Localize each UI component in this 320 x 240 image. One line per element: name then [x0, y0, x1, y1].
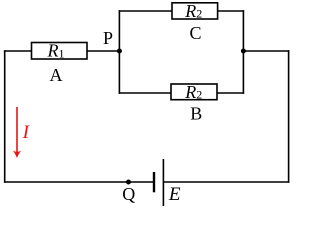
wire: right junction to outer right edge [243, 50, 289, 52]
svg-text:I: I [22, 122, 31, 143]
wire: outer loop right vertical [288, 50, 290, 183]
wire: top branch right horizontal [218, 10, 245, 12]
resistor R2 (branch C) [172, 3, 218, 19]
svg-text:A: A [50, 65, 63, 85]
wire: battery to bottom-right corner [163, 181, 289, 183]
node Q (junction dot) [126, 180, 131, 185]
wire: bottom horizontal from left corner to battery [4, 181, 154, 183]
node P (junction dot) [117, 49, 122, 54]
wire: R1 to node P [87, 50, 119, 52]
wire: outer loop left vertical [4, 50, 6, 183]
svg-text:C: C [189, 23, 201, 43]
battery E: positive plate (long thin) [162, 159, 164, 206]
wire: vertical branch bus at node P [118, 10, 120, 94]
current arrow I (red) [13, 107, 21, 158]
wire: right branch vertical [242, 10, 244, 94]
wire: top-left horizontal into R1 [4, 50, 32, 52]
svg-text:B: B [190, 104, 202, 124]
svg-text:E: E [168, 184, 181, 205]
svg-text:Q: Q [122, 184, 135, 204]
wire: bottom branch right horizontal [217, 92, 244, 94]
svg-text:P: P [103, 28, 113, 48]
wire: top branch left horizontal [119, 10, 172, 12]
wire: bottom branch left horizontal [119, 92, 171, 94]
resistor R1 [32, 43, 88, 60]
battery E: negative plate (short thick) [153, 172, 155, 192]
resistor R2 (branch B) [171, 84, 217, 100]
node: right junction dot [241, 49, 246, 54]
